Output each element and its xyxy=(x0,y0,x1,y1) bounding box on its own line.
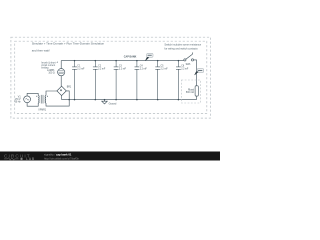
svg-text:CAP BANK: CAP BANK xyxy=(124,56,137,59)
transformer T1 polarity dot secondary xyxy=(47,96,48,97)
svg-text:500 mΩ: 500 mΩ xyxy=(186,92,194,94)
svg-text:2.2 mF: 2.2 mF xyxy=(161,68,169,70)
svg-text:60 Hz: 60 Hz xyxy=(15,101,22,103)
junction dots C1 xyxy=(74,60,76,62)
watermark bar xyxy=(0,152,220,161)
capacitor C1 xyxy=(72,61,77,100)
outer dashed border frame xyxy=(11,37,211,118)
capacitor C3 xyxy=(114,61,119,100)
svg-text:2.2 mF: 2.2 mF xyxy=(98,68,106,70)
svg-text:and then wait!: and then wait! xyxy=(32,48,50,52)
wire V1 top to transformer primary xyxy=(27,93,38,96)
svg-text:LAB: LAB xyxy=(26,157,35,161)
svg-text:XFMR1: XFMR1 xyxy=(38,110,47,112)
junction dot ground xyxy=(104,99,106,101)
probe tag at load branch xyxy=(195,69,204,75)
capacitor C6 xyxy=(176,61,181,100)
svg-text:limiting: limiting xyxy=(41,66,49,69)
junction dots C6 xyxy=(178,60,180,62)
junction dots C4 xyxy=(136,60,138,62)
dashed box around Rload xyxy=(181,80,200,103)
svg-text:Switch includes some resistanc: Switch includes some resistance xyxy=(164,43,201,47)
junction dots C2 xyxy=(95,60,97,62)
wire top rail xyxy=(61,60,184,62)
svg-text:2.2 mF: 2.2 mF xyxy=(140,68,148,70)
logo wire motif and LAB xyxy=(4,157,35,161)
wire Rload bottom to rail xyxy=(196,96,198,100)
wire lamp to top rail xyxy=(60,61,62,69)
svg-text:for wiring and switch contacts: for wiring and switch contacts xyxy=(164,46,198,50)
svg-text:+: + xyxy=(56,60,58,64)
transformer T1 polarity dot primary xyxy=(36,96,37,97)
junction dots C3 xyxy=(115,60,117,62)
capacitor C5 xyxy=(155,61,160,100)
voltage source V1 xyxy=(24,96,31,103)
ground xyxy=(102,100,108,104)
svg-text:Ground: Ground xyxy=(109,103,117,106)
svg-text:signality / cap bank 01: signality / cap bank 01 xyxy=(44,153,72,157)
lamp LAMP1 xyxy=(58,69,65,76)
transformer T1 primary winding xyxy=(37,95,40,103)
wire bridge plus to lamp xyxy=(60,76,62,86)
junction dots C5 xyxy=(157,60,159,62)
wire switch to load branch xyxy=(194,60,197,86)
svg-text:2.2 mF: 2.2 mF xyxy=(181,68,189,70)
capacitor C2 xyxy=(93,61,98,100)
capacitor C4 xyxy=(135,61,140,100)
svg-text:2.2 mF: 2.2 mF xyxy=(77,68,85,70)
switch SW1 xyxy=(184,52,194,61)
resistor Rload xyxy=(195,86,198,96)
wire bottom rail xyxy=(62,99,197,101)
svg-text:SW1: SW1 xyxy=(186,64,192,66)
junction dot bridge return xyxy=(68,99,70,101)
transformer T1 core xyxy=(41,95,43,104)
svg-text:Simulate + Time Domain + Run T: Simulate + Time Domain + Run Time-Domain… xyxy=(32,42,105,46)
wire bridge minus stub to bottom rail xyxy=(61,96,63,100)
annotation: inrush note xyxy=(41,61,56,69)
wire secondary top to bridge AC1 xyxy=(46,91,57,95)
wire V1 bottom to transformer primary xyxy=(27,103,38,107)
wire secondary bottom under bridge to AC2 xyxy=(46,91,69,106)
svg-text:http://circuitlab.com/c/7dq43n: http://circuitlab.com/c/7dq43n xyxy=(44,156,79,160)
bridge rectifier BR1 xyxy=(57,86,66,95)
inner dashed border frame xyxy=(15,41,207,113)
transformer T1 secondary winding xyxy=(44,95,47,103)
svg-text:BR1: BR1 xyxy=(67,87,72,89)
svg-text:2.2 mF: 2.2 mF xyxy=(119,68,127,70)
svg-text:100 Ω: 100 Ω xyxy=(48,73,54,75)
probe tag at cap bank rail xyxy=(145,53,153,60)
